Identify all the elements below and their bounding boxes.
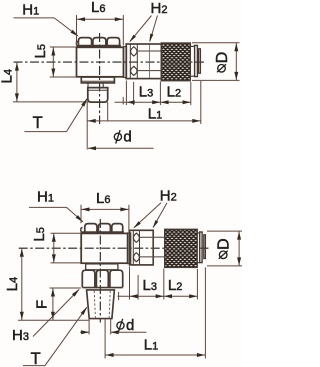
collar between body and hose nut (top drawing) <box>123 47 126 78</box>
bottom view drawing <box>4 187 242 367</box>
hex head on body (bottom drawing) <box>81 231 124 233</box>
horizontal centerline (bottom drawing) <box>19 247 209 249</box>
vertical centerline (bottom drawing) <box>99 219 101 323</box>
nut neck <box>86 264 118 270</box>
svg-text:T: T <box>31 350 41 367</box>
hex nut chamfer lenses (top drawing) <box>131 47 137 56</box>
thread crest dashed lines <box>94 291 95 318</box>
dimension phi-D (bottom, rotated) <box>219 251 227 259</box>
dimension phi-D (top, rotated) <box>218 65 226 73</box>
H1 leader (top) <box>14 17 55 19</box>
svg-text:L6: L6 <box>91 0 105 16</box>
dimension phi-d (top) <box>114 133 121 140</box>
nut facets <box>82 270 95 287</box>
fitting body (bottom drawing) <box>81 233 127 263</box>
svg-text:T: T <box>33 114 43 132</box>
neck between flange and stud nut (top drawing) <box>88 83 103 88</box>
hose hex nut (top drawing) <box>126 44 161 79</box>
end cap (top drawing) <box>191 45 195 47</box>
hex head on body (top drawing) <box>76 45 121 47</box>
knurled sleeve (top drawing) <box>161 43 190 81</box>
horizontal centerline (top drawing) <box>14 61 206 63</box>
flange under body (top drawing) <box>81 77 114 83</box>
stud sleeve nut (top drawing) <box>88 88 108 103</box>
svg-text:F: F <box>33 300 50 309</box>
top view drawing <box>0 0 239 150</box>
sleeve boundary (bottom drawing) <box>152 231 154 265</box>
svg-text:L4: L4 <box>0 69 16 83</box>
collar between body and hose nut (bottom drawing) <box>128 233 131 264</box>
tapered male thread (bottom drawing) <box>87 290 115 319</box>
dimension phi-d (bottom) <box>117 322 124 329</box>
svg-text:D: D <box>216 238 233 250</box>
vertical centerline (top drawing) <box>99 33 101 124</box>
svg-text:D: D <box>214 52 231 64</box>
knurled sleeve (bottom drawing) <box>165 229 198 267</box>
H2 leaders (top) <box>130 16 152 42</box>
fitting body (top drawing) <box>77 47 124 77</box>
hose hex nut (bottom drawing) <box>130 230 154 265</box>
svg-text:d: d <box>126 317 134 334</box>
facet lines to sleeve (top drawing) <box>137 50 161 52</box>
end cap (bottom drawing) <box>198 232 200 234</box>
svg-text:d: d <box>123 128 131 145</box>
sleeve boundary (top drawing) <box>148 45 150 79</box>
